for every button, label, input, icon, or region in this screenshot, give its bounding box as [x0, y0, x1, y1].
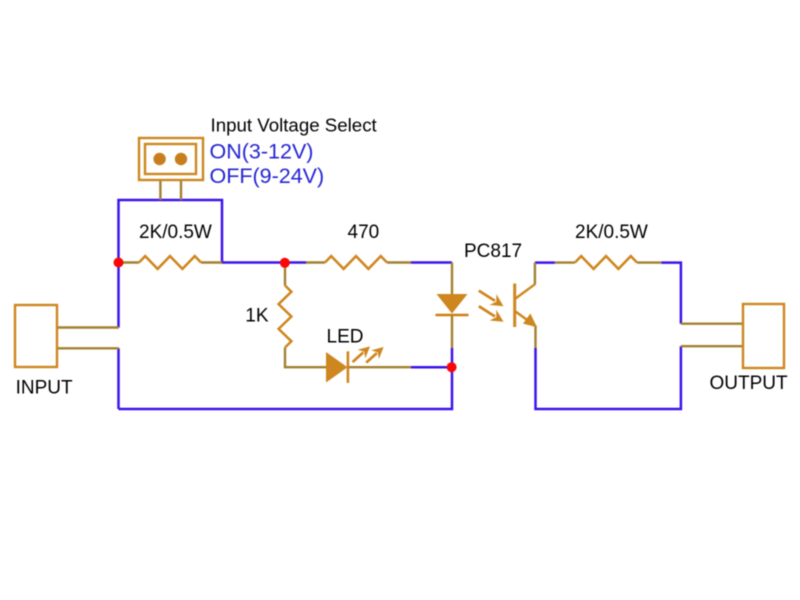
svg-text:Input Voltage Select: Input Voltage Select [211, 115, 378, 136]
svg-text:1K: 1K [245, 305, 269, 326]
svg-text:OUTPUT: OUTPUT [710, 373, 789, 394]
svg-text:INPUT: INPUT [16, 377, 73, 398]
svg-text:2K/0.5W: 2K/0.5W [139, 222, 212, 243]
svg-text:PC817: PC817 [464, 241, 522, 262]
svg-text:2K/0.5W: 2K/0.5W [575, 222, 648, 243]
svg-text:ON(3-12V): ON(3-12V) [210, 139, 314, 163]
svg-text:470: 470 [348, 222, 380, 243]
svg-text:LED: LED [327, 327, 364, 348]
svg-text:OFF(9-24V): OFF(9-24V) [210, 164, 325, 188]
